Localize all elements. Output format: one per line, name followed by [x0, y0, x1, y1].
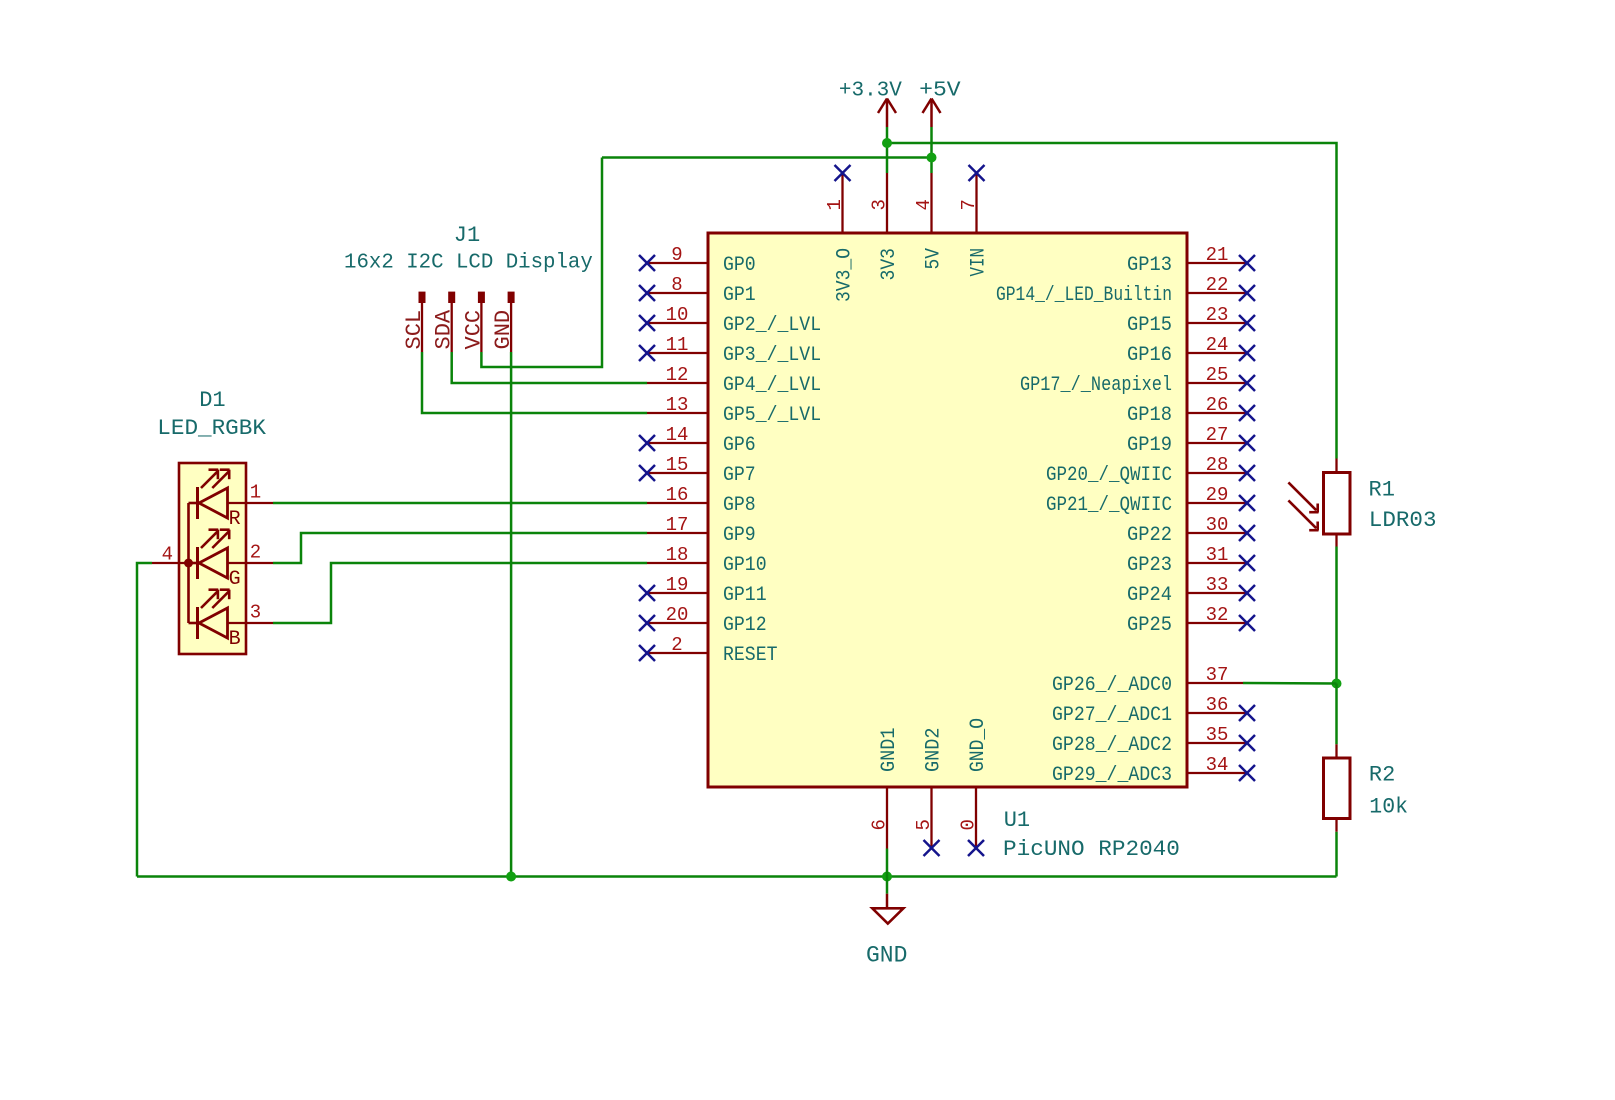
svg-text:GP26_/_ADC0: GP26_/_ADC0: [1052, 674, 1172, 697]
pin 22 GP14_/_LED_Builtin (U1 right): [996, 274, 1255, 307]
svg-text:D1: D1: [199, 388, 225, 413]
svg-text:17: 17: [666, 514, 689, 536]
svg-text:1: 1: [250, 482, 261, 504]
wire ground rail to GND symbol: [886, 877, 889, 894]
light arrows R1 LDR: [1288, 482, 1318, 530]
pin 12 GP4_/_LVL (U1 left): [647, 364, 821, 397]
svg-text:32: 32: [1206, 604, 1229, 626]
svg-text:GND_O: GND_O: [967, 718, 990, 772]
wire J1 GND down to ground rail: [510, 352, 513, 877]
svg-text:GP0: GP0: [723, 254, 756, 277]
svg-text:GP13: GP13: [1127, 254, 1172, 277]
svg-text:RESET: RESET: [723, 644, 778, 667]
power symbol +3.3V: [839, 80, 902, 128]
power symbol GND: [866, 894, 907, 969]
svg-text:3V3_O: 3V3_O: [834, 248, 857, 302]
svg-text:VCC: VCC: [461, 310, 486, 350]
power symbol +5V: [919, 80, 961, 128]
svg-text:35: 35: [1206, 724, 1229, 746]
svg-text:16: 16: [666, 484, 689, 506]
label D1 value LED_RGBK: [157, 416, 266, 441]
resistor R1 body: [1324, 473, 1351, 535]
svg-text:10: 10: [666, 304, 689, 326]
svg-text:GP12: GP12: [723, 614, 767, 637]
wire 5V rail to J1 VCC riser: [602, 156, 932, 159]
svg-text:GP1: GP1: [723, 284, 756, 307]
wire divider node to GP26: [1243, 682, 1337, 685]
svg-text:13: 13: [666, 394, 689, 416]
pin 5 GND2 (U1 bottom): [913, 728, 946, 857]
label U1 reference: [1004, 808, 1030, 833]
pin 14 GP6 (U1 left): [639, 424, 756, 457]
svg-text:2: 2: [250, 542, 261, 564]
svg-text:8: 8: [671, 274, 682, 296]
svg-text:4: 4: [162, 544, 173, 566]
svg-text:R1: R1: [1369, 478, 1395, 503]
svg-text:GP25: GP25: [1127, 614, 1172, 637]
svg-text:2: 2: [671, 634, 682, 656]
svg-text:15: 15: [666, 454, 689, 476]
pin 3 D1 anode B: [228, 602, 274, 624]
wire R2 bottom pin: [1335, 819, 1337, 832]
wire D1 pin4 to ground rail: [137, 563, 152, 877]
svg-text:0: 0: [958, 819, 980, 830]
svg-text:10k: 10k: [1369, 794, 1408, 819]
pin 29 GP21_/_QWIIC (U1 right): [1046, 484, 1255, 517]
pin 13 GP5_/_LVL (U1 left): [647, 394, 821, 427]
label R2 reference: [1369, 763, 1395, 788]
pin 2 RESET (U1 left): [639, 634, 778, 667]
resistor R2 body: [1324, 758, 1351, 819]
svg-text:GP17_/_Neapixel: GP17_/_Neapixel: [1020, 374, 1172, 397]
wire ground rail: [137, 875, 1337, 878]
svg-text:25: 25: [1206, 364, 1229, 386]
pin 6 GND1 (U1 bottom): [869, 728, 902, 849]
svg-text:GP2_/_LVL: GP2_/_LVL: [723, 314, 821, 337]
svg-text:GP11: GP11: [723, 584, 767, 607]
pin 7 VIN (U1 top): [958, 165, 991, 277]
svg-text:16x2 I2C LCD Display: 16x2 I2C LCD Display: [344, 252, 593, 275]
wire D1 pin3 to GP10: [273, 563, 647, 623]
svg-text:26: 26: [1206, 394, 1229, 416]
connector J1 pin SCL: [402, 292, 427, 352]
svg-text:14: 14: [666, 424, 689, 446]
LED D1 red element: [189, 470, 241, 531]
svg-text:GND2: GND2: [923, 728, 946, 773]
svg-text:23: 23: [1206, 304, 1229, 326]
junction D1 common pin 4: [184, 559, 193, 568]
junction ground rail at GND1: [882, 872, 892, 882]
pin 17 GP9 (U1 left): [647, 514, 756, 547]
svg-text:GP29_/_ADC3: GP29_/_ADC3: [1052, 764, 1172, 787]
wire R1 bottom pin: [1335, 534, 1337, 547]
label J1 value 16x2 I2C LCD Display: [344, 252, 593, 275]
svg-text:U1: U1: [1004, 808, 1030, 833]
pin 28 GP20_/_QWIIC (U1 right): [1046, 454, 1255, 487]
label U1 value PicUNO RP2040: [1003, 837, 1180, 862]
svg-text:34: 34: [1206, 754, 1229, 776]
pin 1 D1 anode R: [228, 482, 274, 504]
pin 19 GP11 (U1 left): [639, 574, 767, 607]
pin 2 D1 anode G: [228, 542, 274, 564]
wire GND1 to ground rail: [886, 849, 889, 877]
pin 8 GP1 (U1 left): [639, 274, 756, 307]
svg-text:5V: 5V: [923, 248, 946, 270]
wire D1 pin1 to GP8: [273, 502, 647, 505]
wire 3.3V rail to R1: [887, 143, 1337, 459]
pin 4 D1 common: [152, 544, 189, 566]
svg-text:11: 11: [666, 334, 689, 356]
wire R1 top pin: [1335, 459, 1337, 473]
wire R2 bottom to ground rail: [1335, 832, 1338, 877]
pin 30 GP22 (U1 right): [1127, 514, 1255, 547]
svg-text:12: 12: [666, 364, 689, 386]
svg-text:GP22: GP22: [1127, 524, 1172, 547]
label R1 reference: [1369, 478, 1395, 503]
wire D1 pin2 to GP9: [273, 533, 647, 563]
svg-text:GP7: GP7: [723, 464, 756, 487]
svg-text:R2: R2: [1369, 763, 1395, 788]
svg-text:GND: GND: [491, 310, 516, 350]
svg-text:GP10: GP10: [723, 554, 767, 577]
label D1 reference: [199, 388, 225, 413]
svg-text:GP21_/_QWIIC: GP21_/_QWIIC: [1046, 494, 1172, 517]
wire R1 bottom to divider node: [1335, 547, 1338, 684]
pin 4 5V (U1 top): [913, 173, 946, 270]
svg-text:7: 7: [958, 199, 980, 210]
svg-text:28: 28: [1206, 454, 1229, 476]
svg-text:GP6: GP6: [723, 434, 756, 457]
IC U1 body: [708, 233, 1187, 787]
label J1 reference: [454, 223, 480, 248]
svg-text:GP3_/_LVL: GP3_/_LVL: [723, 344, 821, 367]
svg-text:21: 21: [1206, 244, 1229, 266]
junction 5V at pin 4: [927, 153, 937, 163]
svg-text:33: 33: [1206, 574, 1229, 596]
svg-text:31: 31: [1206, 544, 1229, 566]
LED D1 green element: [189, 530, 241, 591]
svg-text:G: G: [229, 568, 241, 591]
pin 10 GP2_/_LVL (U1 left): [639, 304, 821, 337]
pin 1 3V3_O (U1 top): [824, 165, 857, 302]
svg-text:5: 5: [913, 819, 935, 830]
wire +3.3V arrow to pin 3: [886, 127, 889, 173]
pin 16 GP8 (U1 left): [647, 484, 756, 517]
LED D1 body: [179, 463, 246, 654]
connector J1 pin GND: [491, 292, 516, 352]
svg-text:+5V: +5V: [919, 80, 961, 103]
svg-text:VIN: VIN: [968, 248, 991, 277]
LED D1 blue element: [189, 590, 241, 651]
svg-text:30: 30: [1206, 514, 1229, 536]
svg-text:GP18: GP18: [1127, 404, 1172, 427]
wire J1 VCC to 5V rail: [481, 158, 602, 368]
svg-text:GP14_/_LED_Builtin: GP14_/_LED_Builtin: [996, 284, 1172, 307]
pin 26 GP18 (U1 right): [1127, 394, 1255, 427]
svg-text:GP5_/_LVL: GP5_/_LVL: [723, 404, 821, 427]
junction 3.3V at pin 3: [882, 138, 892, 148]
svg-text:9: 9: [671, 244, 682, 266]
pin 9 GP0 (U1 left): [639, 244, 756, 277]
svg-text:37: 37: [1206, 664, 1229, 686]
pin 3 3V3 (U1 top): [869, 173, 902, 281]
svg-text:GP24: GP24: [1127, 584, 1172, 607]
svg-text:R: R: [229, 508, 241, 531]
label R2 value 10k: [1369, 794, 1408, 819]
svg-text:27: 27: [1206, 424, 1229, 446]
pin 18 GP10 (U1 left): [647, 544, 767, 577]
svg-text:GP9: GP9: [723, 524, 756, 547]
pin 15 GP7 (U1 left): [639, 454, 756, 487]
svg-text:6: 6: [869, 819, 891, 830]
svg-text:20: 20: [666, 604, 689, 626]
pin 21 GP13 (U1 right): [1127, 244, 1255, 277]
label R1 value LDR03: [1369, 508, 1437, 533]
svg-text:29: 29: [1206, 484, 1229, 506]
wire R2 top pin: [1335, 744, 1337, 758]
svg-text:24: 24: [1206, 334, 1229, 356]
connector J1 pin SDA: [432, 292, 457, 352]
svg-text:GP16: GP16: [1127, 344, 1172, 367]
svg-text:3: 3: [869, 199, 891, 210]
pin 23 GP15 (U1 right): [1127, 304, 1255, 337]
pin 37 GP26_/_ADC0 (U1 right): [1052, 664, 1243, 697]
svg-text:GP20_/_QWIIC: GP20_/_QWIIC: [1046, 464, 1172, 487]
svg-text:GP27_/_ADC1: GP27_/_ADC1: [1052, 704, 1172, 727]
pin 36 GP27_/_ADC1 (U1 right): [1052, 694, 1255, 727]
svg-text:GP19: GP19: [1127, 434, 1172, 457]
svg-text:GP8: GP8: [723, 494, 756, 517]
pin 35 GP28_/_ADC2 (U1 right): [1052, 724, 1255, 757]
svg-text:GND: GND: [866, 942, 907, 968]
svg-text:GP4_/_LVL: GP4_/_LVL: [723, 374, 821, 397]
svg-text:J1: J1: [454, 223, 480, 248]
pin 27 GP19 (U1 right): [1127, 424, 1255, 457]
svg-text:19: 19: [666, 574, 689, 596]
pin 31 GP23 (U1 right): [1127, 544, 1255, 577]
LED D1 common cathode rail: [187, 503, 190, 623]
pin 32 GP25 (U1 right): [1127, 604, 1255, 637]
pin 11 GP3_/_LVL (U1 left): [639, 334, 821, 367]
svg-text:1: 1: [824, 199, 846, 210]
svg-text:GP28_/_ADC2: GP28_/_ADC2: [1052, 734, 1172, 757]
pin 24 GP16 (U1 right): [1127, 334, 1255, 367]
connector J1 pin VCC: [461, 292, 486, 352]
wire +5V arrow to pin 4: [930, 127, 933, 173]
svg-text:GP15: GP15: [1127, 314, 1172, 337]
svg-text:B: B: [229, 628, 241, 651]
svg-text:22: 22: [1206, 274, 1229, 296]
svg-text:3V3: 3V3: [878, 248, 901, 281]
svg-text:36: 36: [1206, 694, 1229, 716]
junction ground rail at J1 GND: [506, 872, 516, 882]
pin 25 GP17_/_Neapixel (U1 right): [1020, 364, 1255, 397]
svg-text:LDR03: LDR03: [1369, 508, 1437, 533]
svg-text:GP23: GP23: [1127, 554, 1172, 577]
pin 34 GP29_/_ADC3 (U1 right): [1052, 754, 1255, 787]
svg-text:SDA: SDA: [432, 309, 457, 349]
svg-text:+3.3V: +3.3V: [839, 80, 902, 103]
svg-text:SCL: SCL: [402, 310, 427, 350]
svg-text:3: 3: [250, 602, 261, 624]
wire J1 SCL to GP5: [422, 352, 647, 413]
svg-text:PicUNO RP2040: PicUNO RP2040: [1003, 837, 1180, 862]
svg-text:18: 18: [666, 544, 689, 566]
wire J1 SDA to GP4: [452, 352, 647, 383]
wire divider node to R2: [1335, 684, 1338, 745]
pin 33 GP24 (U1 right): [1127, 574, 1255, 607]
pin 20 GP12 (U1 left): [639, 604, 767, 637]
pin 0 GND_O (U1 bottom): [958, 718, 991, 856]
junction divider node: [1332, 679, 1342, 689]
svg-text:GND1: GND1: [878, 728, 901, 773]
svg-text:LED_RGBK: LED_RGBK: [157, 416, 266, 441]
svg-text:4: 4: [913, 199, 935, 210]
